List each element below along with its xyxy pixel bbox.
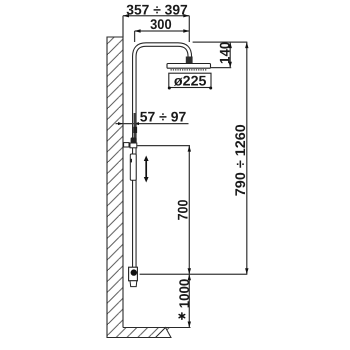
label box Ø225 (168, 72, 212, 89)
floor end triangle (156, 328, 172, 338)
svg-text:700: 700 (175, 199, 191, 220)
mixer valve body (129, 267, 138, 281)
extension line at holder level (137, 145, 190, 147)
shower head spray nozzles dotted line (171, 69, 208, 71)
hand shower holder stem (134, 113, 137, 139)
extension line from shower head edge (211, 67, 232, 69)
extension line at mixer level (140, 273, 248, 275)
dimension 57 ÷ 97 (116, 109, 189, 125)
dimension 700 (175, 146, 191, 275)
hand shower hose connector blob (133, 127, 137, 133)
wall bracket (124, 143, 129, 147)
shower head fitting (186, 57, 193, 64)
wall hatched section (107, 37, 171, 338)
overhead shower head (167, 64, 211, 69)
dimension 140 (216, 41, 232, 67)
dimension 790 ÷ 1260 (232, 42, 249, 274)
dimension * 1000 (176, 274, 192, 327)
svg-text:357 ÷ 397: 357 ÷ 397 (126, 1, 188, 17)
mixer valve knob (131, 269, 137, 275)
wall outline (107, 37, 171, 338)
svg-text:140: 140 (216, 41, 232, 64)
dimension 300 (135, 16, 190, 42)
svg-text:ø225: ø225 (174, 72, 207, 88)
svg-text:300: 300 (150, 16, 172, 32)
dimension 357 ÷ 397 (123, 1, 189, 37)
svg-text:57 ÷ 97: 57 ÷ 97 (140, 109, 187, 125)
mixer valve aerator (130, 281, 137, 287)
extension line from arch top to right (193, 41, 248, 43)
hand shower head (131, 138, 137, 144)
hand shower handle (130, 154, 136, 180)
slide adjustment double arrow (144, 156, 149, 183)
sliding collar (130, 143, 137, 148)
floor line (123, 327, 191, 329)
svg-text:790 ÷ 1260: 790 ÷ 1260 (232, 124, 248, 196)
shower column riser pipe with top arch (134, 45, 190, 267)
svg-text:1000: 1000 (176, 279, 192, 309)
